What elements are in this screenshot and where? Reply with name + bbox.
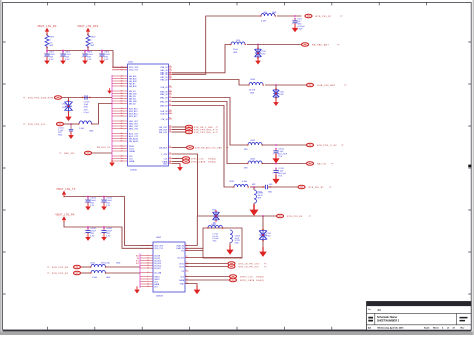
port BTB_PRX_NBL_P <box>186 128 193 132</box>
junction SCL cap branch <box>70 123 72 125</box>
port arrow BTB_PRI_B7 <box>340 15 343 18</box>
capacitor C2001 <box>273 148 288 158</box>
svg-text:34: 34 <box>169 162 171 164</box>
svg-text:VDD_TX2: VDD_TX2 <box>129 70 139 72</box>
port arrow BTB_PRX_NBL_N <box>216 131 219 134</box>
svg-text:Scale: Scale <box>424 328 430 330</box>
U501 right pin names <box>159 67 168 166</box>
svg-text:1: 1 <box>82 53 83 55</box>
svg-text:BTB_PRX_NBL_N: BTB_PRX_NBL_N <box>194 132 215 134</box>
wire junction to V201 <box>262 216 264 230</box>
svg-text:16: 16 <box>147 263 149 265</box>
svg-text:2: 2 <box>273 173 274 175</box>
U501 right pin stubs <box>168 67 172 164</box>
port MIPI2_DATA <box>183 160 190 164</box>
svg-text:ULB_IN: ULB_IN <box>160 87 168 89</box>
net label NB2_IN <box>317 164 326 166</box>
net label MIPI2_CLK <box>191 159 204 161</box>
net label BTB_PRX_B5 <box>52 273 69 275</box>
U601 left pin stubs <box>140 246 153 287</box>
svg-text:6.3V: 6.3V <box>104 59 109 61</box>
svg-text:40.7nH: 40.7nH <box>249 90 256 92</box>
svg-text:MB_B2: MB_B2 <box>129 103 136 105</box>
svg-text:2: 2 <box>85 203 86 205</box>
ground C201 <box>292 24 298 32</box>
net label RED_INT <box>64 153 75 155</box>
wire VDD rail to U501 <box>47 51 128 68</box>
svg-text:No.: No. <box>368 309 372 311</box>
svg-text:BTB_PRI_B2: BTB_PRI_B2 <box>309 187 325 189</box>
ground D501 <box>255 57 261 64</box>
svg-text:6.3V: 6.3V <box>106 236 111 238</box>
wire U501 HB7_IN to L901 <box>172 45 231 73</box>
svg-text:2: 2 <box>273 153 274 155</box>
junction row1 cap branch <box>275 144 277 146</box>
inductor L1101 labels <box>79 128 94 133</box>
capacitor C4301 <box>101 228 113 238</box>
ground D101 <box>65 113 71 121</box>
svg-text:7: 7 <box>186 247 187 249</box>
inductor L1101 <box>78 121 92 125</box>
svg-text:2: 2 <box>82 57 83 59</box>
svg-text:MB_AUX_RX: MB_AUX_RX <box>97 146 111 149</box>
wire L2201 to ground <box>253 203 255 205</box>
svg-text:L901: L901 <box>236 40 240 42</box>
svg-text:BLB_B17: BLB_B17 <box>129 116 138 118</box>
svg-text:13: 13 <box>147 260 149 262</box>
wire D401 to ground <box>275 98 277 101</box>
svg-text:1: 1 <box>60 53 61 55</box>
svg-text:L1901: L1901 <box>250 140 255 142</box>
U601 left pin numbers <box>147 245 149 288</box>
svg-text:13: 13 <box>186 279 188 281</box>
net label MIPI3_CLK <box>240 277 253 279</box>
svg-text:10: 10 <box>121 67 123 69</box>
svg-text:U601: U601 <box>156 237 162 239</box>
ground L2201 <box>250 204 259 216</box>
port arrow BTB_PRX_D_GK <box>341 144 344 147</box>
svg-text:42: 42 <box>121 161 123 163</box>
svg-text:16: 16 <box>169 69 171 71</box>
net label BTB_NB_AUX_RX_PAD <box>195 147 222 150</box>
svg-text:89: 89 <box>121 141 123 143</box>
power net label VBAT_LTE_RF <box>37 25 57 28</box>
port MIPI3_DATA <box>230 278 237 282</box>
net label RB_PAD_ANT <box>312 44 330 47</box>
port arrow BTB_PRX_SDA_SOM <box>23 97 26 100</box>
svg-text:ESD: ESD <box>279 94 284 96</box>
svg-text:61: 61 <box>121 128 123 130</box>
text MIPI3_DATA VGA <box>256 279 265 282</box>
junction rail C4201 <box>87 226 89 228</box>
svg-text:U6X08: U6X08 <box>156 295 163 297</box>
port BTB_PRX_B5L <box>74 271 81 275</box>
svg-text:0R3: 0R3 <box>252 184 255 186</box>
U501 left pin names <box>129 67 139 163</box>
svg-text:0.5pF: 0.5pF <box>84 112 90 114</box>
inductor L1701 labels <box>213 234 220 243</box>
junction rail C4301 <box>103 226 105 228</box>
wire L801 to port BTB_PRI_B7 <box>277 15 302 17</box>
svg-text:0: 0 <box>50 39 51 41</box>
svg-text:61: 61 <box>169 100 171 102</box>
net label MB_AUX_RX <box>97 146 111 149</box>
inductor L901 <box>230 42 246 45</box>
ground U501 <box>177 164 183 171</box>
svg-text:2: 2 <box>292 23 293 25</box>
svg-text:R802: R802 <box>91 37 96 39</box>
inductor L1901 labels <box>244 140 255 151</box>
svg-text:4.7nH: 4.7nH <box>242 181 248 183</box>
power symbol VBAT_LTE_TX <box>62 191 66 198</box>
svg-text:MB4_IN: MB4_IN <box>160 94 168 96</box>
svg-text:51: 51 <box>169 93 171 95</box>
svg-text:USB_IN: USB_IN <box>160 67 168 69</box>
svg-text:SHEET/NUMBER 2: SHEET/NUMBER 2 <box>377 320 400 323</box>
svg-text:GND: GND <box>272 12 277 14</box>
svg-text:1: 1 <box>85 199 86 201</box>
wire junction to D501 <box>257 45 259 50</box>
svg-text:25: 25 <box>147 272 149 274</box>
svg-text:VIO: VIO <box>154 286 158 288</box>
junction row3 shunt branch <box>253 186 255 188</box>
text MIPI3_CLK VGA <box>256 276 265 279</box>
svg-text:2: 2 <box>99 57 100 59</box>
svg-text:19: 19 <box>169 153 171 155</box>
svg-text:VGA(1): VGA(1) <box>256 276 265 279</box>
power symbol VBAT_LTE_RF2 <box>86 28 90 35</box>
svg-text:Sheet: Sheet <box>433 327 439 330</box>
port RB_PAD_ANT <box>302 43 309 47</box>
svg-text:GND: GND <box>58 135 63 137</box>
ground U601 pin bus <box>134 286 140 293</box>
svg-text:6.3V: 6.3V <box>90 205 95 207</box>
svg-text:14: 14 <box>169 146 171 148</box>
port arrow RB_PAD_ANT <box>337 44 340 47</box>
wire C3401 to port BTB_PRI_B2 <box>268 186 298 188</box>
ground C4301 <box>101 234 107 241</box>
svg-text:12: 12 <box>186 249 188 251</box>
text MIPI2_CLK VGA(1) <box>208 158 217 161</box>
tvs V301 label <box>212 210 216 225</box>
port BTB_NB_AUX_RX_PAD <box>187 146 194 150</box>
capacitor C4101 <box>101 197 113 207</box>
wire antenna to U601 LNA1_IN <box>185 216 197 246</box>
resistor R802 <box>91 37 96 48</box>
svg-text:L2001: L2001 <box>250 159 255 161</box>
svg-text:GHz: GHz <box>213 240 217 242</box>
svg-text:11: 11 <box>169 66 171 68</box>
wire U501 to port MIPI2_CLK <box>172 158 183 160</box>
wire U601 OUT1 to port <box>185 263 228 265</box>
wire L1101 to U501 <box>92 104 112 125</box>
wire VBAT_LTE_RF2 to R802 <box>87 34 89 35</box>
port BTB_PRI_B5 <box>277 214 284 218</box>
capacitor C803 <box>82 51 94 61</box>
svg-text:17: 17 <box>186 256 188 258</box>
port RED_INT <box>85 151 92 155</box>
svg-text:1: 1 <box>85 230 86 232</box>
svg-text:RB_PAD_ANT: RB_PAD_ANT <box>312 44 330 47</box>
capacitor C4001 <box>85 197 97 207</box>
power net label VBAT_LTE_RF2 <box>77 25 98 28</box>
svg-text:L1001: L1001 <box>250 79 255 81</box>
svg-text:MIPI2_DATA: MIPI2_DATA <box>191 161 206 164</box>
wire BTB_PRX_SDA_SOM to U501 <box>62 97 112 99</box>
resistor body R802 <box>86 34 90 48</box>
wire U501 to port BTB_NB_X_PAD <box>172 126 186 128</box>
svg-text:BLB_IN: BLB_IN <box>160 113 167 115</box>
svg-text:1: 1 <box>273 150 274 152</box>
wire U501 GND pin <box>172 164 180 167</box>
svg-text:MIPI3_DATA: MIPI3_DATA <box>240 279 255 282</box>
capacitor C201 <box>292 18 306 30</box>
net label BTB_PRX_SCL <box>28 124 47 126</box>
junction net A cap branch <box>294 15 296 17</box>
svg-text:94: 94 <box>121 103 123 105</box>
svg-text:26: 26 <box>169 73 171 75</box>
svg-text:HB_B30: HB_B30 <box>129 86 137 88</box>
svg-text:MB_AUX2: MB_AUX2 <box>129 140 139 143</box>
port arrow BTB_PRI_B2 <box>329 186 332 189</box>
wire U601 to box upper <box>185 247 203 249</box>
net label BTB_LB_PRI_OUT <box>239 264 261 266</box>
inductor L1601 labels <box>211 224 216 226</box>
matching network box <box>203 228 242 258</box>
svg-text:0: 0 <box>91 39 92 41</box>
svg-text:V301: V301 <box>212 210 216 212</box>
svg-text:HB7_IN: HB7_IN <box>160 74 168 76</box>
svg-text:BTB_LB_PRI_OUT: BTB_LB_PRI_OUT <box>239 264 261 266</box>
U601 left pin names <box>154 245 164 288</box>
junction row4 tvs branch <box>262 215 264 217</box>
svg-text:BTB_PRX_B8: BTB_PRX_B8 <box>52 267 69 269</box>
svg-text:MB3_IN: MB3_IN <box>160 105 168 107</box>
net label BTB_PRX_B8 <box>52 267 69 269</box>
net label BTB_NB_X_PAD <box>194 126 213 129</box>
port arrow NB2_IN <box>331 163 334 166</box>
port arrow BTB_PRI_B5 <box>309 215 312 218</box>
svg-text:1: 1 <box>273 170 274 172</box>
svg-text:BTB_PRX_SDA_SOM: BTB_PRX_SDA_SOM <box>28 97 53 100</box>
ground C802 <box>60 57 66 64</box>
inductor L2101 <box>233 184 249 187</box>
port arrow GUA_PRI_ANT <box>344 84 347 87</box>
junction rail C4001 <box>87 196 89 198</box>
svg-text:MW: MW <box>50 45 54 47</box>
svg-text:BTB_PRX_D_GK: BTB_PRX_D_GK <box>317 145 337 147</box>
svg-text:U5X08: U5X08 <box>130 169 137 171</box>
U601 right pin stubs <box>185 246 189 284</box>
svg-text:GND: GND <box>268 192 273 194</box>
U601 right pin names <box>176 244 185 285</box>
svg-text:22: 22 <box>147 268 149 270</box>
ground C4101 <box>101 203 107 210</box>
svg-text:66: 66 <box>169 104 171 106</box>
svg-text:LTB_IN: LTB_IN <box>161 119 168 121</box>
svg-text:33: 33 <box>121 116 123 118</box>
wire U501 USB_IN to L801 <box>172 16 261 74</box>
svg-text:27: 27 <box>186 265 188 267</box>
svg-text:TDK: TDK <box>278 176 283 178</box>
ground C4001 <box>85 203 91 210</box>
junction rail C803 <box>84 50 86 52</box>
svg-text:BTB_PRX_SCL: BTB_PRX_SCL <box>28 124 47 126</box>
svg-text:1: 1 <box>99 53 100 55</box>
junction rail <box>87 50 89 52</box>
tvs diode D501 <box>255 48 267 59</box>
svg-text:0R0: 0R0 <box>269 184 272 186</box>
svg-text:MIPI3_CLK: MIPI3_CLK <box>240 277 253 279</box>
svg-text:13: 13 <box>147 286 149 288</box>
svg-text:P9: P9 <box>182 271 184 273</box>
port arrow BTB_NB_X_PAD <box>216 126 219 129</box>
svg-text:8: 8 <box>186 275 187 277</box>
net label BTB_PRX_SDA_SOM <box>28 97 53 100</box>
inductor L2201 labels <box>258 193 264 200</box>
svg-text:L1601: L1601 <box>211 224 216 226</box>
svg-text:2.2nH: 2.2nH <box>79 128 85 130</box>
svg-text:VGA(1): VGA(1) <box>208 161 217 164</box>
svg-text:4.7nH: 4.7nH <box>261 21 267 23</box>
inductor L901 labels <box>233 40 240 54</box>
wire U501 MB3_IN to L2101 <box>172 106 234 188</box>
svg-text:NB2_IN: NB2_IN <box>317 164 326 166</box>
svg-text:ESD: ESD <box>266 235 271 237</box>
wire U501 MB1_IN to L1901 <box>172 98 248 146</box>
wire U601 GND pin <box>185 284 197 289</box>
wire L1301 to U601 <box>105 272 140 274</box>
svg-text:OUT2: OUT2 <box>179 266 184 268</box>
U601 left pin net labels <box>136 255 139 265</box>
svg-text:22: 22 <box>186 262 188 264</box>
svg-text:VDD_TRX: VDD_TRX <box>154 245 164 247</box>
svg-text:VBAT_LTE_TX: VBAT_LTE_TX <box>56 188 75 191</box>
wire L2101 to C3401 <box>250 186 265 188</box>
capacitor C4201 <box>85 228 97 238</box>
svg-text:L_TRX: L_TRX <box>161 154 168 156</box>
ground U501 pin bus <box>109 159 115 166</box>
svg-text:MW: MW <box>91 45 95 47</box>
wire D501 to ground <box>257 57 259 60</box>
wire U501 MB2_IN to L2001 <box>172 102 248 164</box>
wire R801 to rail <box>46 48 48 51</box>
port BTB_PRI_B7 <box>305 14 312 18</box>
svg-text:3nH at 1A: 3nH at 1A <box>101 261 110 264</box>
port NB2_IN <box>307 162 314 166</box>
port MIPI3_CLK <box>230 275 237 279</box>
svg-text:52: 52 <box>121 86 123 88</box>
svg-text:GND: GND <box>250 92 255 94</box>
U501 right pin numbers <box>169 66 171 165</box>
svg-text:1: 1 <box>101 230 102 232</box>
port BTB_PRX_B8 <box>74 265 81 269</box>
ground C804 <box>99 57 105 64</box>
inductor L801 <box>260 13 276 16</box>
port arrow BTB_PRX_B8 <box>47 266 50 269</box>
svg-text:DATA1: DATA1 <box>129 150 136 153</box>
inductor L1201 <box>90 264 106 267</box>
capacitor C801 <box>44 51 56 61</box>
svg-text:LB_DIV: LB_DIV <box>177 257 184 259</box>
inductor L1201 labels <box>90 261 121 264</box>
port BTB_PRX_SCL <box>57 122 64 126</box>
svg-text:VBAT_LTE_RF: VBAT_LTE_RF <box>37 25 57 28</box>
svg-text:L2101: L2101 <box>229 181 234 183</box>
frame right tick mark <box>468 165 471 168</box>
port BTB_PRX_D_GK <box>307 143 314 147</box>
wire VBAT_LTE_RF to R801 <box>46 34 48 35</box>
port arrow BTB_LB_PRI_DIV <box>264 266 267 269</box>
port arrow BTB_NB_AUX_RX_PAD <box>226 147 229 150</box>
capacitor C804 <box>99 51 111 61</box>
port BTB_PRX_SDA_SOM <box>55 96 62 100</box>
U601 left pin tick bus <box>139 254 141 289</box>
inductor L1901 <box>247 142 263 145</box>
wire U501 to port BTB_PRX_NBL_N <box>172 131 186 133</box>
svg-text:5%: 5% <box>91 42 94 44</box>
port arrow RED_INT <box>59 152 62 155</box>
svg-text:C901: C901 <box>62 104 66 106</box>
ground C1101 <box>68 132 74 139</box>
ground D401 <box>273 99 279 106</box>
wire L1901 to port BTB_PRX_D_GK <box>262 144 306 146</box>
svg-text:10: 10 <box>147 258 149 260</box>
net label BTB_PRI_B5 <box>287 216 303 218</box>
svg-text:10: 10 <box>147 284 149 286</box>
ground L1701 <box>226 245 233 254</box>
wire L901 to port RB_PAD_ANT <box>247 44 301 46</box>
net label MIPI3_DATA <box>240 279 255 282</box>
port BTB_LB_PRI_DIV <box>228 265 235 269</box>
ground C2101 <box>272 175 279 184</box>
capacitor C3001 labels <box>235 236 241 245</box>
svg-text:6.3V: 6.3V <box>106 205 111 207</box>
svg-text:DATA: DATA <box>179 279 185 282</box>
svg-text:LB_B17: LB_B17 <box>154 268 161 270</box>
U501 left pin tick bus <box>111 75 113 161</box>
inductor L2001 <box>247 161 263 164</box>
power net label VBAT_LTE_PA <box>55 214 74 217</box>
svg-text:BTB_PRI_B7: BTB_PRI_B7 <box>316 16 332 18</box>
svg-text:GND: GND <box>106 277 111 279</box>
inductor L1701 <box>230 230 232 243</box>
wire VBAT_LTE_TX rail to U601 <box>64 196 153 245</box>
sheet left shadow <box>0 0 2 335</box>
junction rail C801 <box>46 50 48 52</box>
power symbol VBAT_LTE_PA <box>62 216 66 223</box>
wire BTB_PRX_B8 to L1201 <box>81 266 91 268</box>
ground C801 <box>44 57 50 64</box>
svg-text:2: 2 <box>44 57 45 59</box>
power net label VBAT_LTE_TX <box>56 188 75 191</box>
svg-text:36: 36 <box>169 78 171 80</box>
svg-text:LB_28A: LB_28A <box>154 271 162 274</box>
wire BTB_PRX_SCL to L1101 <box>64 123 79 125</box>
port GUA_PRI_ANT <box>307 83 314 87</box>
inductor L1001 <box>248 82 264 85</box>
svg-text:39R: 39R <box>258 197 262 199</box>
net label BTB_PRI_B2 <box>309 187 325 189</box>
U501 left pin numbers <box>121 67 123 163</box>
inductor L2201 <box>254 190 257 203</box>
svg-text:VBAT_LTE_RF2: VBAT_LTE_RF2 <box>77 25 98 28</box>
inductor L1001 labels <box>249 79 256 95</box>
svg-text:5%: 5% <box>50 42 53 44</box>
svg-text:L801: L801 <box>263 12 267 14</box>
wire U501 to port MIPI2_DATA <box>172 161 183 163</box>
svg-text:MB1_IN: MB1_IN <box>160 97 168 99</box>
